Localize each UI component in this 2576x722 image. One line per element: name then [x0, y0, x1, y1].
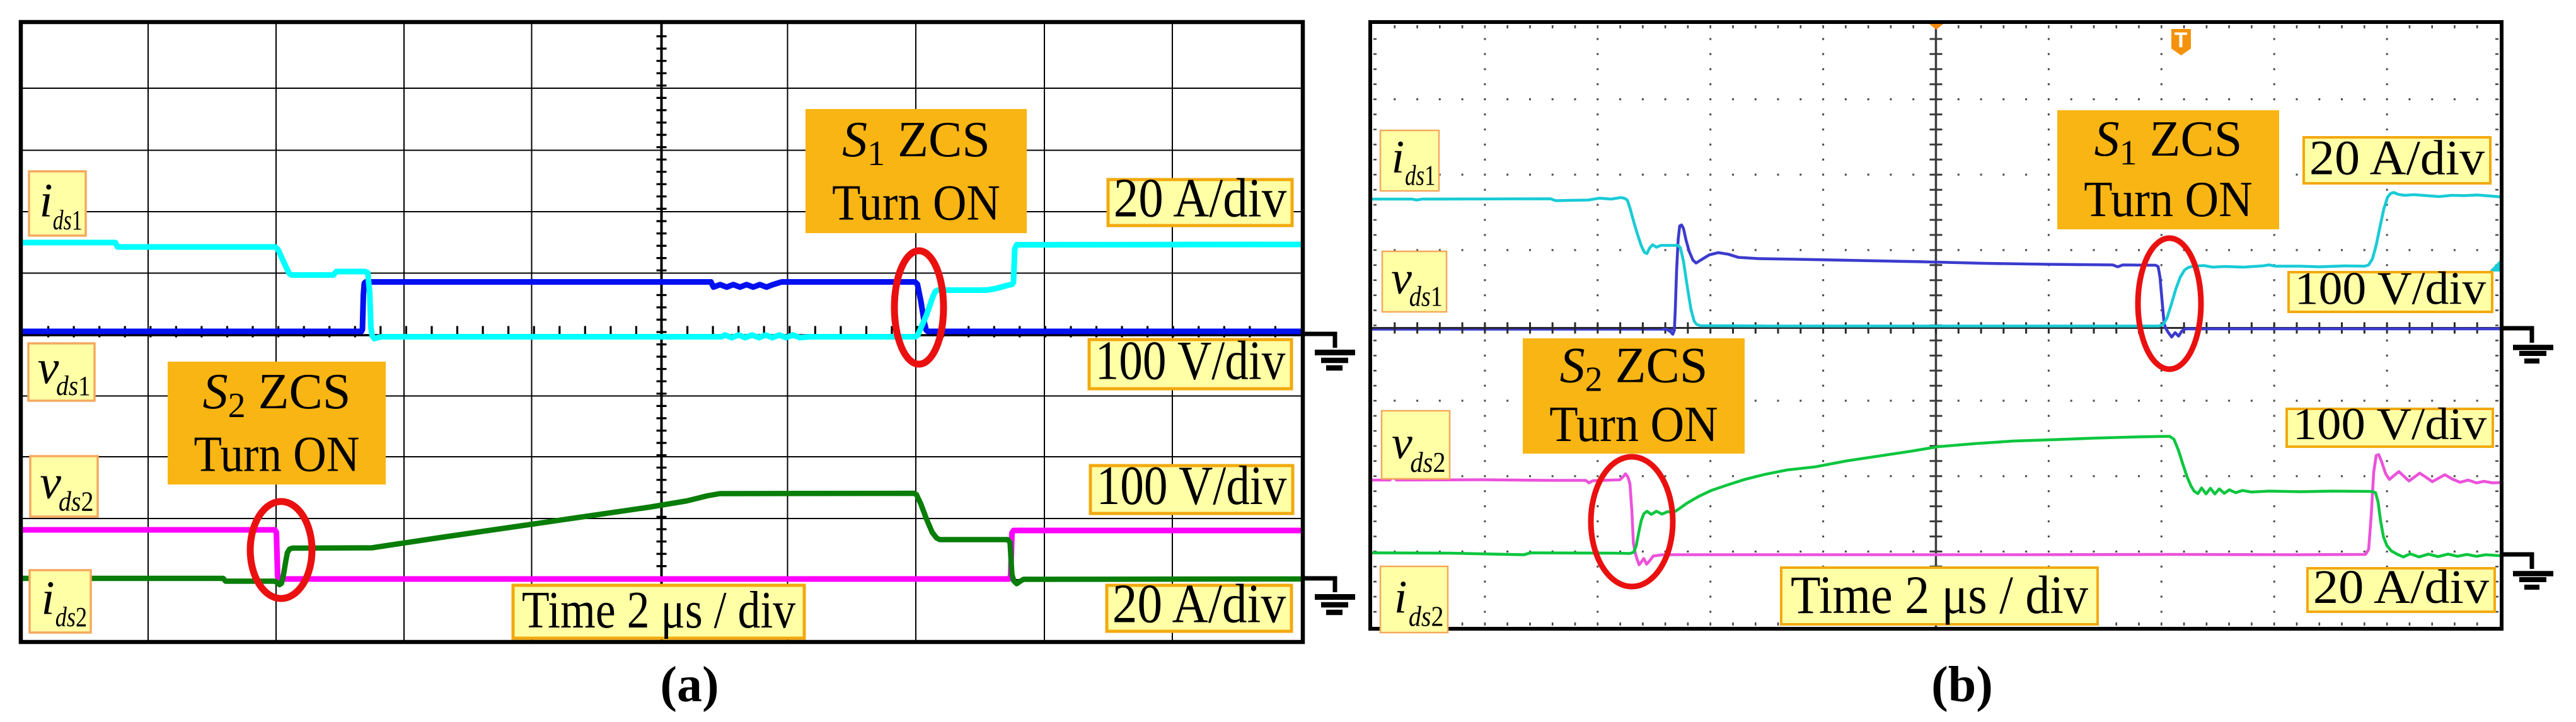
ground symbol at v_ds1 zero (a) [1303, 334, 1335, 348]
trace i_ds1 cyan (b) [1372, 193, 2500, 326]
svg-text:i: i [39, 174, 52, 227]
svg-text:Turn ON: Turn ON [194, 427, 360, 483]
grid of panel (a) [147, 24, 149, 640]
svg-text:i: i [1392, 132, 1405, 183]
svg-text:20 A/div: 20 A/div [2313, 561, 2489, 614]
trigger level marker T (b) [2171, 29, 2191, 55]
red ellipse S2 ZCS point (b) [1591, 457, 1673, 587]
label 20 A/div lower (b) [2307, 561, 2495, 614]
trace i_ds2 magenta (b) [1372, 455, 2500, 565]
svg-text:ds2: ds2 [1409, 600, 1444, 633]
red ellipse S1 ZCS point (a) [894, 251, 944, 364]
callout S2 ZCS Turn ON (b) [1523, 338, 1745, 454]
svg-text:S1 ZCS: S1 ZCS [2094, 112, 2243, 173]
red ellipse S2 ZCS point (a) [250, 501, 312, 599]
svg-text:Turn ON: Turn ON [2084, 172, 2253, 227]
svg-text:100 V/div: 100 V/div [1095, 330, 1286, 391]
svg-text:ds1: ds1 [53, 205, 83, 236]
svg-text:ds2: ds2 [59, 486, 94, 517]
svg-text:i: i [1394, 572, 1407, 624]
callout S1 ZCS Turn ON (a) [806, 109, 1027, 233]
svg-text:S2 ZCS: S2 ZCS [203, 364, 351, 425]
svg-text:v: v [1392, 418, 1412, 469]
trace v_ds2 magenta (a) [23, 530, 1301, 579]
trace i_ds1 cyan (a) [23, 243, 1301, 339]
trace i_ds2 green (a) [23, 493, 1301, 585]
label 20 A/div upper (a) [1108, 168, 1292, 229]
ticked zero axis of upper traces (a) [23, 334, 1301, 336]
label i_ds1 (a) [29, 171, 86, 236]
red ellipse S1 ZCS point (b) [2138, 238, 2201, 369]
label 20 A/div upper (b) [2304, 130, 2490, 185]
svg-text:100 V/div: 100 V/div [2293, 399, 2486, 449]
svg-text:100 V/div: 100 V/div [2295, 263, 2486, 314]
ground symbol at v_ds1 zero (b) [2502, 328, 2532, 343]
graticule border ticks (b) [1373, 25, 2498, 626]
svg-text:T: T [2175, 28, 2188, 52]
svg-text:ds1: ds1 [1405, 159, 1435, 191]
callout S1 ZCS Turn ON (b) [2057, 110, 2279, 229]
callout S2 ZCS Turn ON (a) [168, 362, 386, 484]
label 100 V/div lower (b) [2287, 399, 2493, 449]
svg-text:(b): (b) [1931, 657, 1993, 713]
trigger position triangle at top centre (b) [1929, 24, 1943, 30]
svg-text:i: i [42, 571, 55, 624]
trace v_ds1 blue (a) [23, 282, 1301, 332]
label i_ds2 (a) [30, 570, 91, 633]
svg-text:S2 ZCS: S2 ZCS [1560, 338, 1708, 399]
centre horizontal line with ticks (b) [1372, 327, 2500, 329]
svg-text:ds2: ds2 [1410, 446, 1445, 478]
ground symbol at i_ds2 zero (a) [1303, 578, 1335, 592]
label v_ds1 (b) [1382, 251, 1447, 312]
label i_ds2 (b) [1380, 566, 1448, 633]
label v_ds2 (a) [30, 456, 98, 517]
svg-text:Turn ON: Turn ON [1549, 397, 1718, 452]
label Time 2 us/div (a) [513, 581, 804, 639]
svg-text:20 A/div: 20 A/div [1114, 168, 1287, 229]
svg-text:Time 2 μs / div: Time 2 μs / div [1791, 564, 2088, 625]
trace v_ds1 blue (b) [1663, 225, 2500, 337]
trace v_ds2 green (b) [1372, 437, 2500, 558]
border frame of panel (a) [21, 22, 1303, 642]
svg-text:Time 2 μs / div: Time 2 μs / div [522, 581, 795, 639]
svg-text:20 A/div: 20 A/div [2309, 130, 2485, 185]
border frame of panel (b) [1370, 22, 2502, 629]
svg-text:(a): (a) [660, 657, 719, 713]
label v_ds1 (a) [28, 341, 95, 401]
label i_ds1 (b) [1380, 130, 1439, 191]
svg-text:ds2: ds2 [55, 602, 87, 633]
centre vertical cursor line with ticks (b) [1935, 24, 1938, 627]
svg-text:100 V/div: 100 V/div [1097, 456, 1287, 517]
label v_ds2 (b) [1382, 411, 1450, 479]
ground symbol at i_ds2 zero (b) [2502, 554, 2532, 569]
centre vertical cursor line with minor ticks (a) [661, 24, 663, 640]
trace v_ds1 blue baseline under centre line (b) [1372, 327, 1674, 331]
label 100 V/div upper (a) [1089, 330, 1291, 391]
svg-text:Turn ON: Turn ON [832, 175, 1000, 231]
label 100 V/div upper (b) [2289, 263, 2492, 314]
cyan channel arrow at right edge (b) [2489, 261, 2500, 272]
label 20 A/div lower (a) [1107, 573, 1291, 634]
svg-text:S1 ZCS: S1 ZCS [842, 112, 990, 173]
svg-text:ds1: ds1 [1409, 280, 1443, 312]
label Time 2 us/div (b) [1781, 564, 2098, 625]
svg-text:ds1: ds1 [56, 370, 91, 401]
svg-text:20 A/div: 20 A/div [1112, 573, 1286, 634]
dotted grid of panel (b) [1394, 39, 2478, 612]
label 100 V/div lower (a) [1090, 456, 1293, 517]
